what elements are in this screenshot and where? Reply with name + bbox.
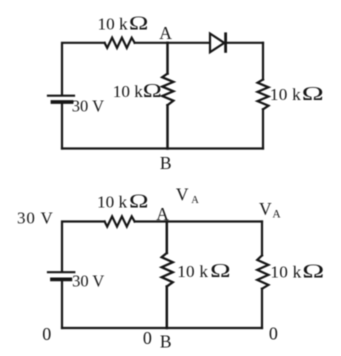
wire node A to resistor (bottom circuit) xyxy=(166,222,169,254)
svg-text:V: V xyxy=(259,199,272,219)
battery V1 short plate xyxy=(53,100,72,104)
svg-text:Ω: Ω xyxy=(302,261,324,282)
label 10 kOhm R3 xyxy=(270,84,324,105)
wire bottom (bottom circuit) xyxy=(62,327,262,329)
svg-text:A: A xyxy=(272,209,281,221)
svg-text:10 k: 10 k xyxy=(113,82,143,101)
svg-text:0: 0 xyxy=(42,324,51,344)
svg-text:A: A xyxy=(159,23,172,43)
svg-text:30 V: 30 V xyxy=(72,97,104,116)
svg-text:0: 0 xyxy=(269,324,278,344)
svg-text:Ω: Ω xyxy=(129,13,149,34)
battery V1 long plate xyxy=(48,95,74,97)
svg-text:A: A xyxy=(156,204,169,224)
resistor R1 10k horizontal (top circuit) xyxy=(105,38,135,48)
svg-text:10 k: 10 k xyxy=(177,262,208,281)
label 10 kOhm R5 xyxy=(177,261,230,282)
svg-text:30 V: 30 V xyxy=(17,208,54,227)
label 10 kOhm R6 xyxy=(270,261,324,282)
svg-text:V: V xyxy=(176,185,189,205)
svg-text:0: 0 xyxy=(143,328,152,348)
svg-text:10 k: 10 k xyxy=(98,14,128,33)
wire diode-to-corner (top circuit) xyxy=(227,42,263,44)
wire left lower (bottom circuit) xyxy=(61,281,63,328)
svg-text:B: B xyxy=(160,331,172,351)
svg-text:10 k: 10 k xyxy=(97,192,127,211)
wire top-left segment (top circuit) xyxy=(62,43,105,95)
svg-text:B: B xyxy=(160,153,172,173)
wire right side upper (top circuit) xyxy=(262,43,264,80)
node VA label right (bottom circuit) xyxy=(259,199,281,221)
wire left lower (top circuit) xyxy=(61,104,63,149)
diode D1 xyxy=(210,34,226,53)
wire right side lower (top circuit) xyxy=(262,109,264,148)
wire resistor to node B (top circuit) xyxy=(166,105,169,148)
wire resistor to right corner (bottom circuit) xyxy=(135,220,262,222)
wire resistor-to-diode (top circuit) xyxy=(135,42,210,44)
wire node A to resistor (top circuit) xyxy=(166,43,169,74)
svg-text:A: A xyxy=(191,195,199,206)
svg-text:Ω: Ω xyxy=(210,261,231,282)
svg-text:30 V: 30 V xyxy=(72,272,104,291)
wire right side lower (bottom circuit) xyxy=(261,289,263,328)
wire right side upper (bottom circuit) xyxy=(261,222,263,256)
resistor R6 10k vertical right (bottom circuit) xyxy=(257,255,268,288)
label 10 kOhm R1 xyxy=(98,13,149,34)
svg-text:10 k: 10 k xyxy=(270,85,301,104)
resistor R2 10k vertical middle (top circuit) xyxy=(162,74,173,106)
label 10 kOhm R2 xyxy=(113,81,162,102)
resistor R4 10k horizontal (bottom circuit) xyxy=(105,216,135,226)
resistor R3 10k vertical right (top circuit) xyxy=(258,80,269,110)
node VA label above A (bottom circuit) xyxy=(176,185,199,207)
wire resistor to node B (bottom circuit) xyxy=(166,287,169,329)
battery V2 short plate xyxy=(52,277,70,281)
wire bottom (top circuit) xyxy=(62,147,263,149)
svg-text:Ω: Ω xyxy=(143,81,162,102)
wire top-left segment (bottom circuit) xyxy=(62,222,105,272)
svg-text:10 k: 10 k xyxy=(270,262,301,281)
label 10 kOhm R4 xyxy=(97,191,149,212)
svg-text:Ω: Ω xyxy=(129,191,149,212)
svg-text:Ω: Ω xyxy=(302,84,324,105)
battery V2 long plate xyxy=(48,271,74,273)
resistor R5 10k vertical middle (bottom circuit) xyxy=(162,253,173,287)
